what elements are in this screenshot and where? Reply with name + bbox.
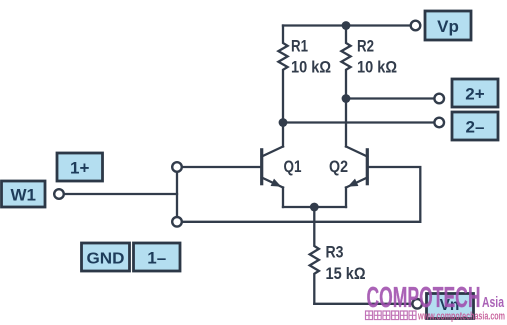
svg-text:Q2: Q2 bbox=[329, 158, 348, 176]
terminal circle 2+ bbox=[434, 94, 444, 104]
transistor Q2 bbox=[346, 147, 367, 208]
svg-text:1–: 1– bbox=[147, 249, 166, 268]
junction node R2 top bbox=[342, 21, 351, 30]
svg-text:Vp: Vp bbox=[437, 17, 459, 36]
junction node R2 bottom / 2+ tap bbox=[342, 94, 351, 103]
emitter arrow Q1 bbox=[271, 179, 282, 187]
svg-text:10 kΩ: 10 kΩ bbox=[357, 59, 397, 77]
value label R1 bbox=[291, 38, 331, 77]
svg-text:2+: 2+ bbox=[465, 85, 484, 104]
terminal circle 2- bbox=[434, 118, 444, 128]
svg-text:Asia: Asia bbox=[482, 295, 505, 311]
svg-text:W1: W1 bbox=[10, 186, 36, 205]
svg-text:R2: R2 bbox=[357, 38, 374, 56]
svg-text:1+: 1+ bbox=[70, 159, 89, 178]
wire input bus vertical bbox=[176, 172, 178, 217]
svg-text:10 kΩ: 10 kΩ bbox=[291, 59, 331, 77]
junction node common emitter bbox=[310, 203, 319, 212]
port box 1- bbox=[134, 243, 181, 271]
terminal circle W1 bbox=[54, 189, 64, 199]
value label R2 bbox=[357, 38, 397, 77]
svg-text:2–: 2– bbox=[466, 118, 485, 137]
resistor R1 bbox=[278, 26, 287, 123]
port box 2- bbox=[452, 112, 498, 140]
value label R3 bbox=[326, 244, 366, 284]
terminal circle Vn bbox=[412, 299, 422, 309]
svg-text:Q1: Q1 bbox=[284, 158, 302, 176]
terminal circle 1- bbox=[172, 217, 182, 227]
wire R1 bottom to Q1 collector node bbox=[282, 123, 284, 147]
terminal circle 1+ bbox=[172, 162, 182, 172]
wire top rail from R1 top to Vp terminal bbox=[283, 24, 411, 26]
resistor R3 bbox=[310, 207, 319, 304]
svg-text:15 kΩ: 15 kΩ bbox=[326, 265, 366, 283]
terminal circle Vp bbox=[411, 21, 421, 31]
wire node to output 2+ bbox=[346, 97, 434, 99]
svg-text:R1: R1 bbox=[291, 38, 308, 56]
svg-text:GND: GND bbox=[87, 251, 125, 268]
wire node to output 2- bbox=[283, 121, 434, 123]
port box W1 bbox=[2, 181, 46, 207]
resistor R2 bbox=[341, 26, 350, 99]
port box GND bbox=[82, 243, 130, 271]
svg-text:R3: R3 bbox=[326, 244, 344, 262]
wire base Q1 from terminal 1+ bbox=[182, 166, 262, 168]
svg-text:www.compotechasia.com: www.compotechasia.com bbox=[417, 311, 505, 323]
wire common emitter rail bbox=[283, 206, 346, 208]
port box Vn bbox=[427, 294, 474, 319]
emitter arrow Q2 bbox=[348, 179, 359, 187]
watermark CJK tagline (drawn glyph blocks) bbox=[366, 311, 417, 320]
watermark COMPOTECH Asia bbox=[367, 282, 505, 314]
svg-text:COMPOTECH: COMPOTECH bbox=[367, 282, 481, 314]
wire W1 to input bus bbox=[64, 193, 177, 195]
port box 1+ bbox=[57, 153, 103, 181]
port box 2+ bbox=[452, 79, 498, 107]
wire R3 to Vn terminal bbox=[314, 303, 412, 305]
transistor Q1 bbox=[262, 147, 283, 208]
port box Vp bbox=[425, 11, 471, 40]
wire R2 bottom to Q2 collector node bbox=[345, 99, 347, 147]
wire base Q2 feedback loop bbox=[182, 167, 420, 222]
junction node R1 bottom / 2- tap bbox=[279, 118, 288, 127]
